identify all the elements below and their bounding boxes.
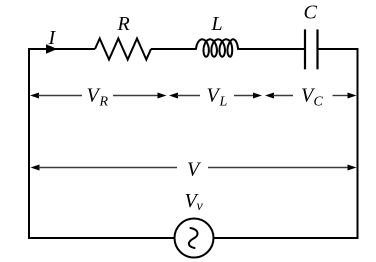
wire bottom left segment [28, 237, 174, 239]
inductor L [196, 39, 238, 56]
voltage arrow V [31, 165, 357, 171]
wire right vertical [357, 48, 359, 239]
voltage arrow V_C [265, 93, 357, 99]
voltage arrow V_R [30, 93, 167, 99]
label V_v [185, 190, 204, 214]
svg-text:C: C [314, 95, 324, 110]
capacitor C plate left [304, 29, 306, 69]
label V_C [301, 85, 324, 110]
wire top: resistor to inductor [151, 48, 196, 50]
label V_R [87, 85, 109, 110]
resistor R [95, 39, 151, 60]
svg-text:R: R [99, 95, 109, 110]
svg-text:R: R [117, 13, 130, 35]
wire bottom right segment [214, 237, 359, 239]
svg-text:I: I [48, 27, 57, 49]
current arrowhead I [46, 44, 57, 53]
wire top: left to resistor [28, 48, 95, 50]
wire top: inductor to capacitor [238, 48, 305, 50]
AC source Vv circle [175, 219, 214, 258]
svg-text:v: v [197, 199, 204, 214]
capacitor C plate right [316, 29, 318, 69]
wire top: capacitor to right [318, 48, 359, 50]
voltage arrow V_L [169, 93, 262, 99]
svg-text:L: L [219, 95, 228, 110]
wire left vertical [28, 49, 30, 238]
AC source squiggle [189, 228, 198, 248]
label V_L [207, 85, 228, 110]
svg-text:V: V [187, 158, 202, 180]
svg-text:C: C [304, 2, 318, 24]
svg-text:L: L [211, 13, 223, 35]
